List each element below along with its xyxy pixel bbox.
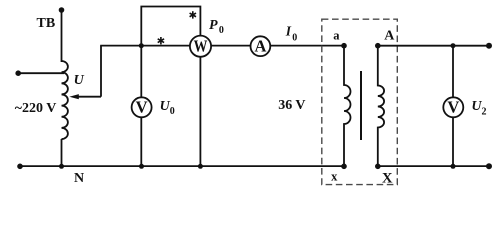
node neutral junction voltmeter (139, 164, 144, 169)
svg-text:U: U (74, 73, 85, 88)
wire wiper riser (100, 46, 102, 97)
voltmeter V (U0) (132, 97, 152, 117)
wire secondary top lead (378, 45, 489, 47)
svg-text:~220 V: ~220 V (15, 101, 57, 116)
svg-text:2: 2 (482, 107, 487, 118)
transformer primary winding (344, 46, 351, 166)
node terminal x (341, 164, 347, 170)
svg-text:I: I (285, 24, 292, 39)
node junction wattmeter branch (139, 43, 144, 48)
transformer core (360, 71, 362, 140)
wire TB vertical feed bottom (61, 139, 63, 166)
dashed enclosure of transformer under test (322, 19, 398, 184)
wire wattmeter voltage-coil loop (141, 7, 200, 46)
node TB terminal (59, 7, 65, 13)
ammeter A (251, 36, 271, 56)
svg-text:x: x (331, 169, 338, 183)
wiper arrow of autotransformer (76, 96, 101, 98)
svg-text:V: V (447, 98, 459, 117)
wire TB vertical feed top (61, 10, 63, 62)
wire voltmeter U2 branch (452, 46, 454, 166)
wire main line (100, 45, 344, 47)
node terminal a (341, 43, 347, 49)
label * polarity mark voltage coil (190, 11, 196, 18)
svg-text:X: X (382, 171, 393, 187)
node output terminal bottom (486, 163, 492, 169)
wire secondary bottom lead (378, 165, 489, 167)
node terminal A (375, 43, 381, 49)
transformer secondary winding (378, 46, 384, 166)
wire wattmeter bottom drop (199, 46, 201, 166)
node junction voltmeter U2 bottom (451, 164, 456, 169)
wire voltmeter U0 branch (140, 46, 142, 167)
svg-text:0: 0 (219, 25, 224, 36)
svg-text:N: N (74, 171, 84, 186)
svg-text:ТВ: ТВ (37, 16, 56, 31)
wire bottom neutral bus (20, 165, 344, 167)
svg-text:A: A (254, 37, 266, 56)
node neutral left end (17, 164, 23, 170)
node output terminal top (486, 43, 492, 49)
node phase input (15, 70, 21, 76)
autotransformer winding (62, 61, 68, 139)
node terminal X (375, 164, 381, 170)
svg-text:36 V: 36 V (278, 98, 305, 113)
wire phase input to winding (18, 72, 64, 74)
svg-text:W: W (194, 37, 208, 56)
voltmeter V (U2) (443, 97, 463, 117)
node neutral junction wattmeter (198, 164, 203, 169)
svg-text:a: a (333, 28, 340, 42)
svg-text:A: A (384, 29, 395, 44)
label * polarity mark current coil (158, 37, 164, 44)
svg-text:P: P (209, 18, 218, 33)
svg-text:0: 0 (170, 106, 175, 117)
node neutral junction TB (59, 164, 64, 169)
svg-text:V: V (136, 98, 148, 117)
wattmeter W (190, 36, 211, 57)
node junction voltmeter U2 top (451, 43, 456, 48)
svg-text:0: 0 (292, 32, 297, 43)
